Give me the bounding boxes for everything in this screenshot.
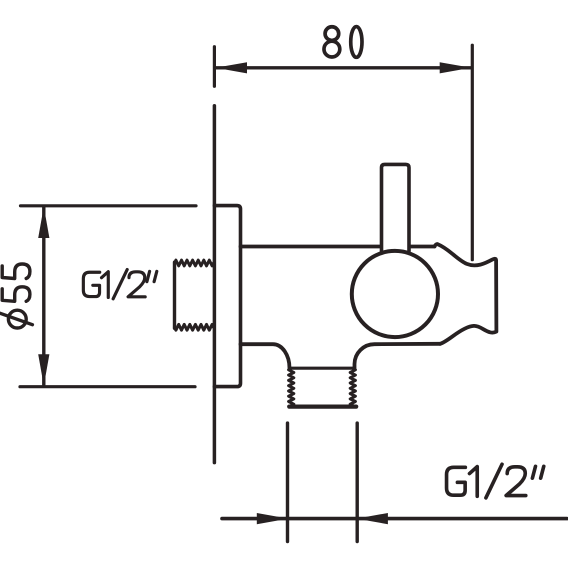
dim G1/2 arrowhead pointing right <box>257 513 289 524</box>
dim 80 arrowhead left <box>216 62 248 73</box>
dim G1/2 bottom: dimension line <box>222 517 567 521</box>
dim ø55 arrowhead down <box>38 354 49 386</box>
outlet thread right zigzag <box>350 369 355 406</box>
inlet thread G1/2 left edge <box>173 262 176 328</box>
valve body top line (handle to cradle) <box>411 245 435 249</box>
dim 80: dimension line <box>216 66 471 69</box>
dim ø55 arrowhead up <box>38 207 49 239</box>
dim ø55: bottom extension line <box>20 385 195 388</box>
valve body top line (plate to handle) <box>241 245 380 249</box>
dim G1/2 bottom: right extension line <box>356 423 359 541</box>
wall line <box>213 106 217 463</box>
dim 80: right extension line <box>471 45 474 260</box>
dim ø55: dimension line <box>42 208 45 385</box>
inlet thread top zigzag <box>175 260 214 266</box>
valve body bottom line (outlet to cradle) <box>355 344 441 369</box>
text 80 <box>324 27 362 58</box>
label G1/2 outlet (bottom right) <box>447 464 544 498</box>
dim G1/2 bottom: left extension line <box>286 423 289 541</box>
dim 80: left extension segment <box>213 47 216 87</box>
escutcheon plate (side view) <box>214 206 240 387</box>
outlet thread left zigzag <box>289 369 294 406</box>
dim G1/2 arrowhead pointing left <box>356 513 388 524</box>
outlet thread top line <box>291 367 353 370</box>
cradle (shower holder) outline <box>435 244 497 344</box>
valve body bottom line (plate to outlet) <box>241 344 290 368</box>
label G1/2 inlet (left) <box>83 270 156 299</box>
outlet thread bottom end face <box>289 405 356 409</box>
handle lever <box>382 164 410 251</box>
inlet thread bottom zigzag <box>175 324 214 330</box>
dim 80 arrowhead right <box>440 62 472 73</box>
valve knob circle <box>352 251 438 337</box>
label ø55 (rotated) <box>0 264 32 328</box>
dim ø55: top extension line <box>21 204 197 207</box>
